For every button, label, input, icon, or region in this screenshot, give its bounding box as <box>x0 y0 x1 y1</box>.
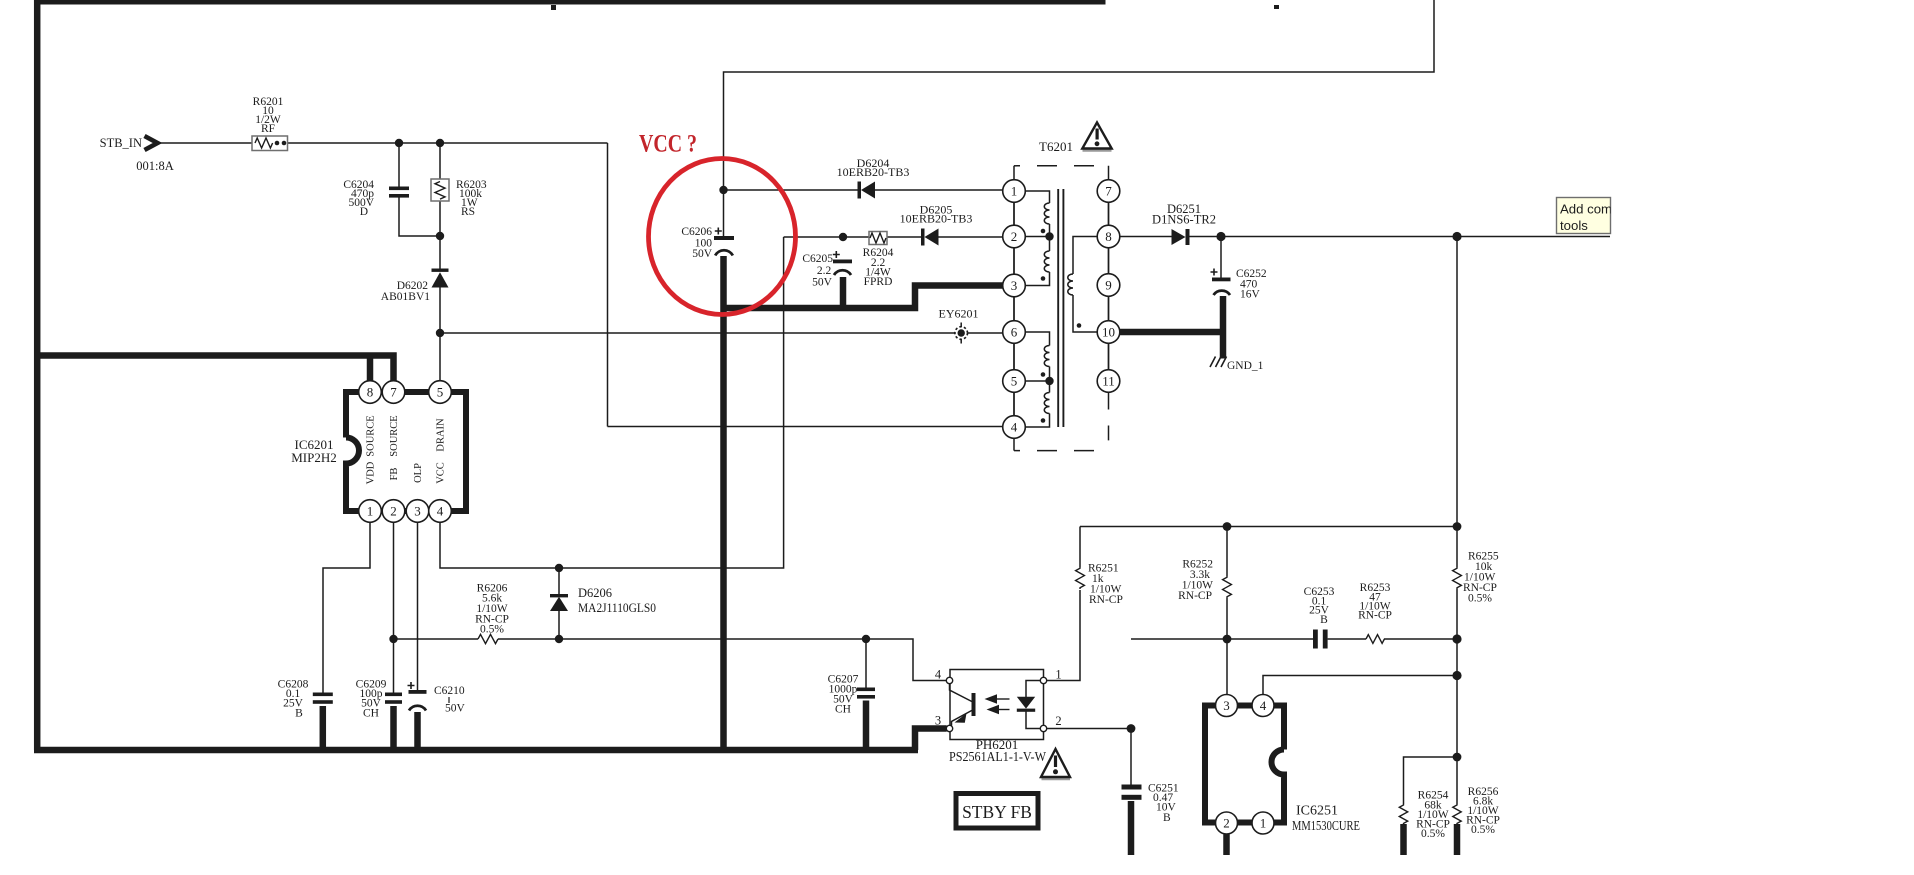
resistor R6252 zigzag <box>1223 576 1232 598</box>
svg-text:8: 8 <box>367 385 374 400</box>
svg-text:tools: tools <box>1560 218 1588 233</box>
IC6251 reference label <box>1292 804 1360 835</box>
wire VCC top loop <box>724 0 1435 190</box>
wire thick ground bus <box>34 747 918 754</box>
svg-text:CH: CH <box>835 704 851 716</box>
resistor R6252 value label <box>1178 559 1213 603</box>
svg-text:3: 3 <box>1011 278 1018 293</box>
svg-text:STBY FB: STBY FB <box>962 802 1032 822</box>
svg-text:MM1530CURE: MM1530CURE <box>1292 819 1360 834</box>
wire C6251 vertical <box>1130 729 1132 785</box>
opto pin 2 <box>1040 725 1046 731</box>
capacitor C6208 <box>313 693 333 704</box>
wire thick C6208 stub <box>320 706 327 750</box>
diode D6206 value label <box>578 586 656 615</box>
svg-text:16V: 16V <box>1240 289 1261 301</box>
opto pin 4 <box>946 677 952 683</box>
diode D6251 <box>1172 229 1190 245</box>
transformer T6201 dashed body <box>1014 166 1109 451</box>
capacitor C6205 electrolytic <box>833 251 852 275</box>
opto LED <box>1017 681 1041 729</box>
svg-text:VCC ?: VCC ? <box>639 131 697 158</box>
diode D6205 <box>921 229 939 246</box>
wire D6206 vertical taps <box>558 568 560 639</box>
IC6251 pin 4 <box>1252 695 1274 717</box>
svg-text:RS: RS <box>461 206 475 218</box>
svg-text:OLP: OLP <box>413 463 424 483</box>
opto phototransistor <box>950 684 974 726</box>
svg-text:2.2: 2.2 <box>817 265 832 277</box>
svg-text:50V: 50V <box>692 248 713 260</box>
wire IC6251 pin4 up and right <box>1263 676 1457 695</box>
svg-text:50V: 50V <box>445 703 466 715</box>
annotation red circle around C6206 <box>649 159 796 315</box>
wire C6207 tap down <box>865 639 867 688</box>
IC6201 pin 8 <box>359 381 382 404</box>
resistor R6255 value label <box>1463 551 1499 605</box>
wire R6203 / D6202 vertical chain <box>439 143 441 381</box>
resistor R6204 value label <box>863 247 894 288</box>
capacitor C6210 value label <box>434 685 466 715</box>
wire thick C6207 stub <box>863 701 870 751</box>
IC6251 pin 2 <box>1216 812 1238 834</box>
transformer secondary winding 8-10 <box>1068 237 1097 333</box>
wire IC pin 2 down to C6209 <box>393 522 395 692</box>
capacitor C6204 value label <box>343 179 374 218</box>
wire C6205 R6204 D6205 row to transformer pin 2 <box>784 236 1003 238</box>
capacitor C6206 value label <box>681 226 712 260</box>
capacitor C6207 <box>857 688 875 699</box>
wire secondary rail down right side <box>1456 237 1458 805</box>
svg-text:7: 7 <box>390 385 397 400</box>
IC6251 pin 1 <box>1252 812 1274 834</box>
opto pin 3 <box>946 725 952 731</box>
transformer pin 5 <box>1003 370 1026 393</box>
svg-text:4: 4 <box>1260 698 1267 713</box>
diode D6202 <box>432 269 449 288</box>
node junction dots <box>367 5 1462 761</box>
svg-text:DRAIN: DRAIN <box>436 418 447 452</box>
IC6201 pin 7 <box>382 381 405 404</box>
resistor R6204 box <box>869 232 887 245</box>
resistor R6256 value label <box>1466 786 1500 836</box>
capacitor C6253 <box>1313 630 1328 649</box>
diode D6251 value label <box>1152 202 1216 227</box>
wire thick top border <box>34 0 1106 5</box>
wire thick C6251 stub <box>1128 801 1135 855</box>
optocoupler PH6201 body <box>950 670 1044 740</box>
resistor R6253 zigzag <box>1366 635 1384 644</box>
capacitor C6251 value label <box>1148 783 1179 825</box>
svg-text:D: D <box>360 206 368 218</box>
diode D6204 value label <box>837 156 910 179</box>
resistor R6253 value label <box>1358 582 1392 622</box>
wire IC pin 3 down to C6210 <box>417 522 419 690</box>
svg-text:C6206: C6206 <box>681 226 712 238</box>
capacitor C6206 electrolytic <box>714 228 734 256</box>
svg-text:RN-CP: RN-CP <box>1358 610 1392 622</box>
transformer pin 11 <box>1097 370 1120 393</box>
transformer pin 1 <box>1003 180 1026 203</box>
spark gap EY6201 <box>955 323 968 344</box>
wire C6204 branch down <box>399 143 440 236</box>
svg-text:0.5%: 0.5% <box>480 624 504 636</box>
svg-text:GND_1: GND_1 <box>1227 360 1264 372</box>
resistor R6203 value label <box>456 179 487 218</box>
wire IC6251 pin3 up <box>1226 639 1228 694</box>
capacitor C6209 value label <box>356 679 387 720</box>
svg-text:10: 10 <box>1102 325 1115 340</box>
svg-text:50V: 50V <box>812 277 833 289</box>
transformer pin 8 <box>1097 225 1120 248</box>
wire R6254 branch <box>1404 757 1458 804</box>
svg-text:3: 3 <box>414 504 421 519</box>
capacitor C6251 <box>1122 785 1142 800</box>
svg-text:C6210: C6210 <box>434 685 465 697</box>
diode D6205 value label <box>900 203 973 226</box>
warning triangle PS2561 <box>1041 749 1070 779</box>
svg-text:0.5%: 0.5% <box>1421 828 1445 840</box>
svg-text:SOURCE: SOURCE <box>366 415 377 456</box>
transformer pin column links <box>1014 180 1109 439</box>
capacitor C6209 <box>385 693 402 704</box>
svg-text:RF: RF <box>261 123 275 135</box>
wire C6206 top feed <box>723 190 725 236</box>
svg-text:0.5%: 0.5% <box>1471 824 1495 836</box>
svg-text:RN-CP: RN-CP <box>1089 594 1123 606</box>
svg-text:CH: CH <box>363 708 379 720</box>
wire thick transformer pin10 ground rail <box>1120 329 1223 336</box>
resistor R6201 fusible box <box>252 136 288 151</box>
opto pin 1 <box>1040 677 1046 683</box>
svg-text:10ERB20-TB3: 10ERB20-TB3 <box>900 212 973 226</box>
diode D6204 <box>858 182 876 199</box>
svg-text:6: 6 <box>1011 325 1018 340</box>
capacitor C6252 electrolytic <box>1211 269 1231 296</box>
wire thick opto pin3 to ground bus <box>915 729 947 751</box>
wire thick left border <box>34 0 41 750</box>
STBY FB flag box <box>956 794 1038 829</box>
svg-text:11: 11 <box>1102 374 1115 389</box>
svg-text:AB01BV1: AB01BV1 <box>381 291 430 303</box>
wire STB_IN net to transformer pin 4 <box>608 426 1003 428</box>
transformer pin 7 <box>1097 180 1120 203</box>
resistor R6206 zigzag <box>478 634 498 643</box>
wire thick C6210 stub <box>414 712 421 750</box>
svg-text:2: 2 <box>1055 714 1061 728</box>
svg-text:0.5%: 0.5% <box>1468 593 1492 605</box>
resistor R6256 zigzag <box>1453 804 1461 824</box>
transformer primary winding 1-2-3 <box>1026 191 1050 286</box>
resistor R6201 value label <box>253 96 284 135</box>
resistor R6255 zigzag <box>1453 567 1462 589</box>
resistor R6206 value label <box>475 583 509 636</box>
wire VCC feed down to IC pin 4 row <box>440 237 784 568</box>
wire thick C6252 to GND_1 <box>1220 296 1227 359</box>
wire D6204 row to transformer pin 1 <box>724 189 1003 191</box>
capacitor C6205 value label <box>802 253 833 289</box>
wire thick C6209 stub <box>390 706 397 750</box>
transformer primary winding 6-5-4 <box>1026 332 1050 427</box>
wire C6252 feed <box>1220 237 1222 278</box>
wire node D6202 to transformer pin 6 <box>440 332 1003 334</box>
wire thick C6205 stub <box>840 277 847 308</box>
svg-text:2: 2 <box>1011 229 1018 244</box>
IC6251 body MM1530CURE <box>1205 706 1284 823</box>
diode D6206 <box>550 594 568 611</box>
wire opto pin2 to C6251 node <box>1046 728 1131 730</box>
svg-text:7: 7 <box>1105 184 1112 199</box>
wire STB_IN horizontal run to corner <box>158 142 608 144</box>
transformer pin 3 <box>1003 274 1026 297</box>
svg-text:4: 4 <box>935 668 942 682</box>
svg-text:EY6201: EY6201 <box>939 307 979 321</box>
svg-text:B: B <box>295 708 303 720</box>
svg-text:B: B <box>1163 812 1171 824</box>
svg-text:4: 4 <box>437 504 444 519</box>
capacitor C6253 value label <box>1304 586 1335 626</box>
capacitor C6204 <box>389 187 409 198</box>
wire thick jog to transformer pin 3 <box>724 286 1003 309</box>
svg-text:10ERB20-TB3: 10ERB20-TB3 <box>837 165 910 179</box>
transformer pin 4 <box>1003 416 1026 439</box>
IC6251 pin 3 <box>1216 695 1238 717</box>
svg-text:2: 2 <box>390 504 397 519</box>
svg-text:5: 5 <box>1011 374 1018 389</box>
svg-text:RN-CP: RN-CP <box>1178 590 1212 602</box>
wire node down from pin2 row, R6252 branch <box>1226 527 1228 640</box>
resistor R6254 zigzag <box>1399 804 1407 824</box>
svg-text:1: 1 <box>1055 668 1061 682</box>
wire thick IC6251 pin2 stub <box>1223 834 1230 855</box>
IC6201 pin 1 <box>359 500 382 523</box>
ground GND_1 hatches <box>1210 357 1227 368</box>
svg-text:3: 3 <box>935 714 941 728</box>
svg-text:VDD: VDD <box>366 461 377 484</box>
svg-text:FB: FB <box>389 468 400 481</box>
opto light arrows <box>985 694 1010 714</box>
wire FB row with R6206 to opto pin 4 <box>394 639 947 681</box>
wire thick R6256 stub <box>1454 824 1461 855</box>
svg-text:IC6251: IC6251 <box>1296 804 1338 819</box>
resistor R6254 value label <box>1416 790 1450 841</box>
svg-text:D1NS6-TR2: D1NS6-TR2 <box>1152 213 1216 227</box>
warning triangle T6201 <box>1082 123 1111 151</box>
transformer pin 2 <box>1003 225 1026 248</box>
svg-text:STB_IN: STB_IN <box>100 136 142 150</box>
capacitor C6252 value label <box>1236 268 1267 301</box>
transformer pin 6 <box>1003 321 1026 344</box>
wire thick R6254 stub <box>1400 824 1407 855</box>
wire top feedback rail <box>1080 526 1457 528</box>
wire C6253 R6253 row <box>1131 638 1457 640</box>
capacitor C6207 value label <box>828 674 859 716</box>
svg-text:MA2J1110GLS0: MA2J1110GLS0 <box>578 601 656 615</box>
svg-text:FPRD: FPRD <box>864 276 893 288</box>
svg-text:C6205: C6205 <box>802 253 833 265</box>
IC6201 pin 2 <box>382 500 405 523</box>
IC6201 pin 4 <box>429 500 452 523</box>
svg-text:D6206: D6206 <box>578 586 612 600</box>
svg-text:1: 1 <box>367 504 374 519</box>
port STB_IN arrow <box>145 136 158 150</box>
svg-text:T6201: T6201 <box>1039 139 1073 154</box>
transformer pin 9 <box>1097 274 1120 297</box>
svg-text:MIP2H2: MIP2H2 <box>291 450 337 465</box>
svg-text:2: 2 <box>1223 816 1230 831</box>
svg-text:4: 4 <box>1011 420 1018 435</box>
wire opto pin1 up to R6251 <box>1046 527 1080 681</box>
svg-text:9: 9 <box>1105 278 1112 293</box>
svg-text:001:8A: 001:8A <box>136 159 174 173</box>
tooltip note Add com tools <box>1557 198 1656 234</box>
svg-text:1: 1 <box>1011 184 1018 199</box>
resistor R6251 zigzag <box>1076 567 1085 589</box>
transformer pin 10 <box>1097 321 1120 344</box>
IC6201 pin 5 <box>429 381 452 404</box>
resistor R6203 box <box>431 179 449 201</box>
capacitor C6210 electrolytic <box>408 682 427 711</box>
IC6201 pin 3 <box>406 500 429 523</box>
svg-text:VCC: VCC <box>436 462 447 484</box>
wire D6251 output row <box>1120 236 1610 238</box>
IC6201 body MIP2H2 <box>346 392 466 511</box>
svg-text:B: B <box>1320 614 1328 626</box>
svg-text:5: 5 <box>437 385 444 400</box>
IC6201 reference label <box>291 437 337 465</box>
wire STB_IN net down segment <box>607 143 609 427</box>
svg-text:8: 8 <box>1105 229 1112 244</box>
wire thick source rail to IC pins 8 and 7 <box>40 356 394 381</box>
diode D6202 value label <box>381 280 430 303</box>
capacitor C6208 value label <box>278 679 309 720</box>
svg-text:PS2561AL1-1-V-W: PS2561AL1-1-V-W <box>949 749 1046 764</box>
wire thick VCC- vertical from C6206 <box>720 256 727 750</box>
wire IC pin 1 down-left to C6208 <box>323 522 370 692</box>
resistor R6251 value label <box>1088 563 1123 607</box>
transformer core <box>1058 189 1063 427</box>
svg-text:3: 3 <box>1223 698 1230 713</box>
svg-text:1: 1 <box>1260 816 1267 831</box>
svg-text:SOURCE: SOURCE <box>389 415 400 456</box>
